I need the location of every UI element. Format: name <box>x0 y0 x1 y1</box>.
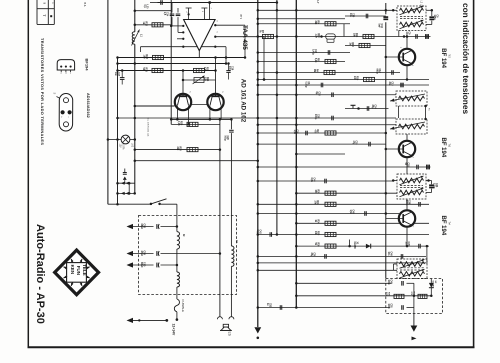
svg-text:100p: 100p <box>314 114 316 120</box>
svg-text:12V: 12V <box>119 144 121 149</box>
svg-text:47μF: 47μF <box>140 251 143 257</box>
svg-text:R24: R24 <box>179 147 182 152</box>
svg-text:2: 2 <box>399 47 401 48</box>
svg-text:FUN: FUN <box>76 266 81 275</box>
svg-text:c: c <box>69 73 71 74</box>
svg-text:L2 L3: L2 L3 <box>420 1 422 7</box>
svg-text:R34: R34 <box>317 220 320 225</box>
svg-text:1,2: 1,2 <box>412 155 414 158</box>
svg-text:125p: 125p <box>432 183 434 189</box>
svg-text:C48: C48 <box>352 210 355 215</box>
svg-text:AD161/AD162: AD161/AD162 <box>86 93 90 118</box>
svg-text:0,1μ: 0,1μ <box>256 230 258 235</box>
svg-text:30n: 30n <box>114 72 116 77</box>
svg-text:30n: 30n <box>388 82 390 87</box>
svg-text:b: b <box>60 117 62 118</box>
svg-text:TAA 435: TAA 435 <box>241 25 248 50</box>
svg-text:8,2k: 8,2k <box>314 58 316 63</box>
svg-text:10n: 10n <box>349 13 351 18</box>
svg-text:1,4: 1,4 <box>411 63 413 66</box>
svg-text:OA180: OA180 <box>353 242 356 250</box>
svg-text:C47: C47 <box>117 72 120 77</box>
svg-text:12+14V: 12+14V <box>172 324 176 337</box>
svg-text:1,5k: 1,5k <box>314 34 316 39</box>
svg-text:BT1: BT1 <box>239 15 242 20</box>
svg-text:Auto-Radio - AP-30: Auto-Radio - AP-30 <box>34 224 46 324</box>
svg-text:68μF: 68μF <box>140 262 143 268</box>
svg-text:1,5n: 1,5n <box>293 130 295 135</box>
svg-text:C46: C46 <box>390 252 393 257</box>
svg-text:b: b <box>64 73 66 74</box>
svg-text:KEN: KEN <box>70 265 75 275</box>
svg-text:125p: 125p <box>433 15 435 21</box>
svg-text:0 A: 0 A <box>83 3 87 7</box>
svg-text:47p: 47p <box>352 141 355 146</box>
svg-text:AD 161: AD 161 <box>240 79 247 101</box>
svg-text:BF 194: BF 194 <box>440 48 446 68</box>
svg-text:0,47μ: 0,47μ <box>311 49 314 55</box>
svg-text:LA2: LA2 <box>131 143 134 148</box>
svg-text:100n: 100n <box>387 304 389 310</box>
svg-text:5: 5 <box>189 92 191 93</box>
svg-text:25μ: 25μ <box>310 253 312 258</box>
svg-text:S.u. 105 Komb. ant.: S.u. 105 Komb. ant. <box>147 118 150 138</box>
svg-text:BF194: BF194 <box>85 59 90 72</box>
svg-text:C42: C42 <box>259 230 262 235</box>
svg-text:T: T <box>42 15 46 17</box>
svg-text:C44: C44 <box>313 178 316 183</box>
svg-text:C14: C14 <box>166 12 169 17</box>
svg-text:5: 5 <box>221 92 223 93</box>
svg-text:BF 194: BF 194 <box>440 216 446 236</box>
svg-text:680p: 680p <box>375 69 377 75</box>
svg-text:C49: C49 <box>390 280 393 285</box>
svg-text:0,15: 0,15 <box>177 121 179 126</box>
svg-text:25p: 25p <box>371 105 373 110</box>
svg-text:1,5n: 1,5n <box>349 210 351 215</box>
svg-text:TRANSISTORES VISTOS POR LAD: TRANSISTORES VISTOS POR LADO TERMINALES <box>40 38 45 145</box>
svg-text:BF 194: BF 194 <box>440 138 446 158</box>
svg-text:1M: 1M <box>313 69 315 72</box>
svg-text:6,8n: 6,8n <box>310 178 312 183</box>
svg-text:e: e <box>67 117 69 118</box>
svg-text:68μF: 68μF <box>140 224 143 230</box>
svg-text:100μ: 100μ <box>228 66 230 72</box>
svg-text:500μ: 500μ <box>223 136 225 142</box>
svg-text:Dr: Dr <box>182 234 184 237</box>
svg-text:0,02μ: 0,02μ <box>304 82 306 88</box>
svg-text:2,2k: 2,2k <box>203 67 205 72</box>
svg-text:100n: 100n <box>387 280 389 286</box>
svg-text:S: S <box>53 93 57 95</box>
svg-text:C24: C24 <box>374 105 377 110</box>
svg-text:AD 162: AD 162 <box>240 101 247 123</box>
svg-text:0,7: 0,7 <box>412 225 414 228</box>
svg-text:5nF: 5nF <box>377 24 380 29</box>
svg-text:e: e <box>60 73 62 74</box>
svg-text:LS: LS <box>227 332 231 337</box>
svg-text:FUSIBLE: FUSIBLE <box>181 300 185 313</box>
svg-text:R14: R14 <box>355 33 358 38</box>
svg-text:con indicación de tensiones: con indicación de tensiones <box>461 3 471 114</box>
svg-text:TELE: TELE <box>82 264 87 276</box>
svg-text:100: 100 <box>142 55 145 60</box>
svg-text:10n: 10n <box>387 252 389 257</box>
svg-text:OA180: OA180 <box>432 281 435 289</box>
svg-text:0,07A: 0,07A <box>122 144 125 150</box>
